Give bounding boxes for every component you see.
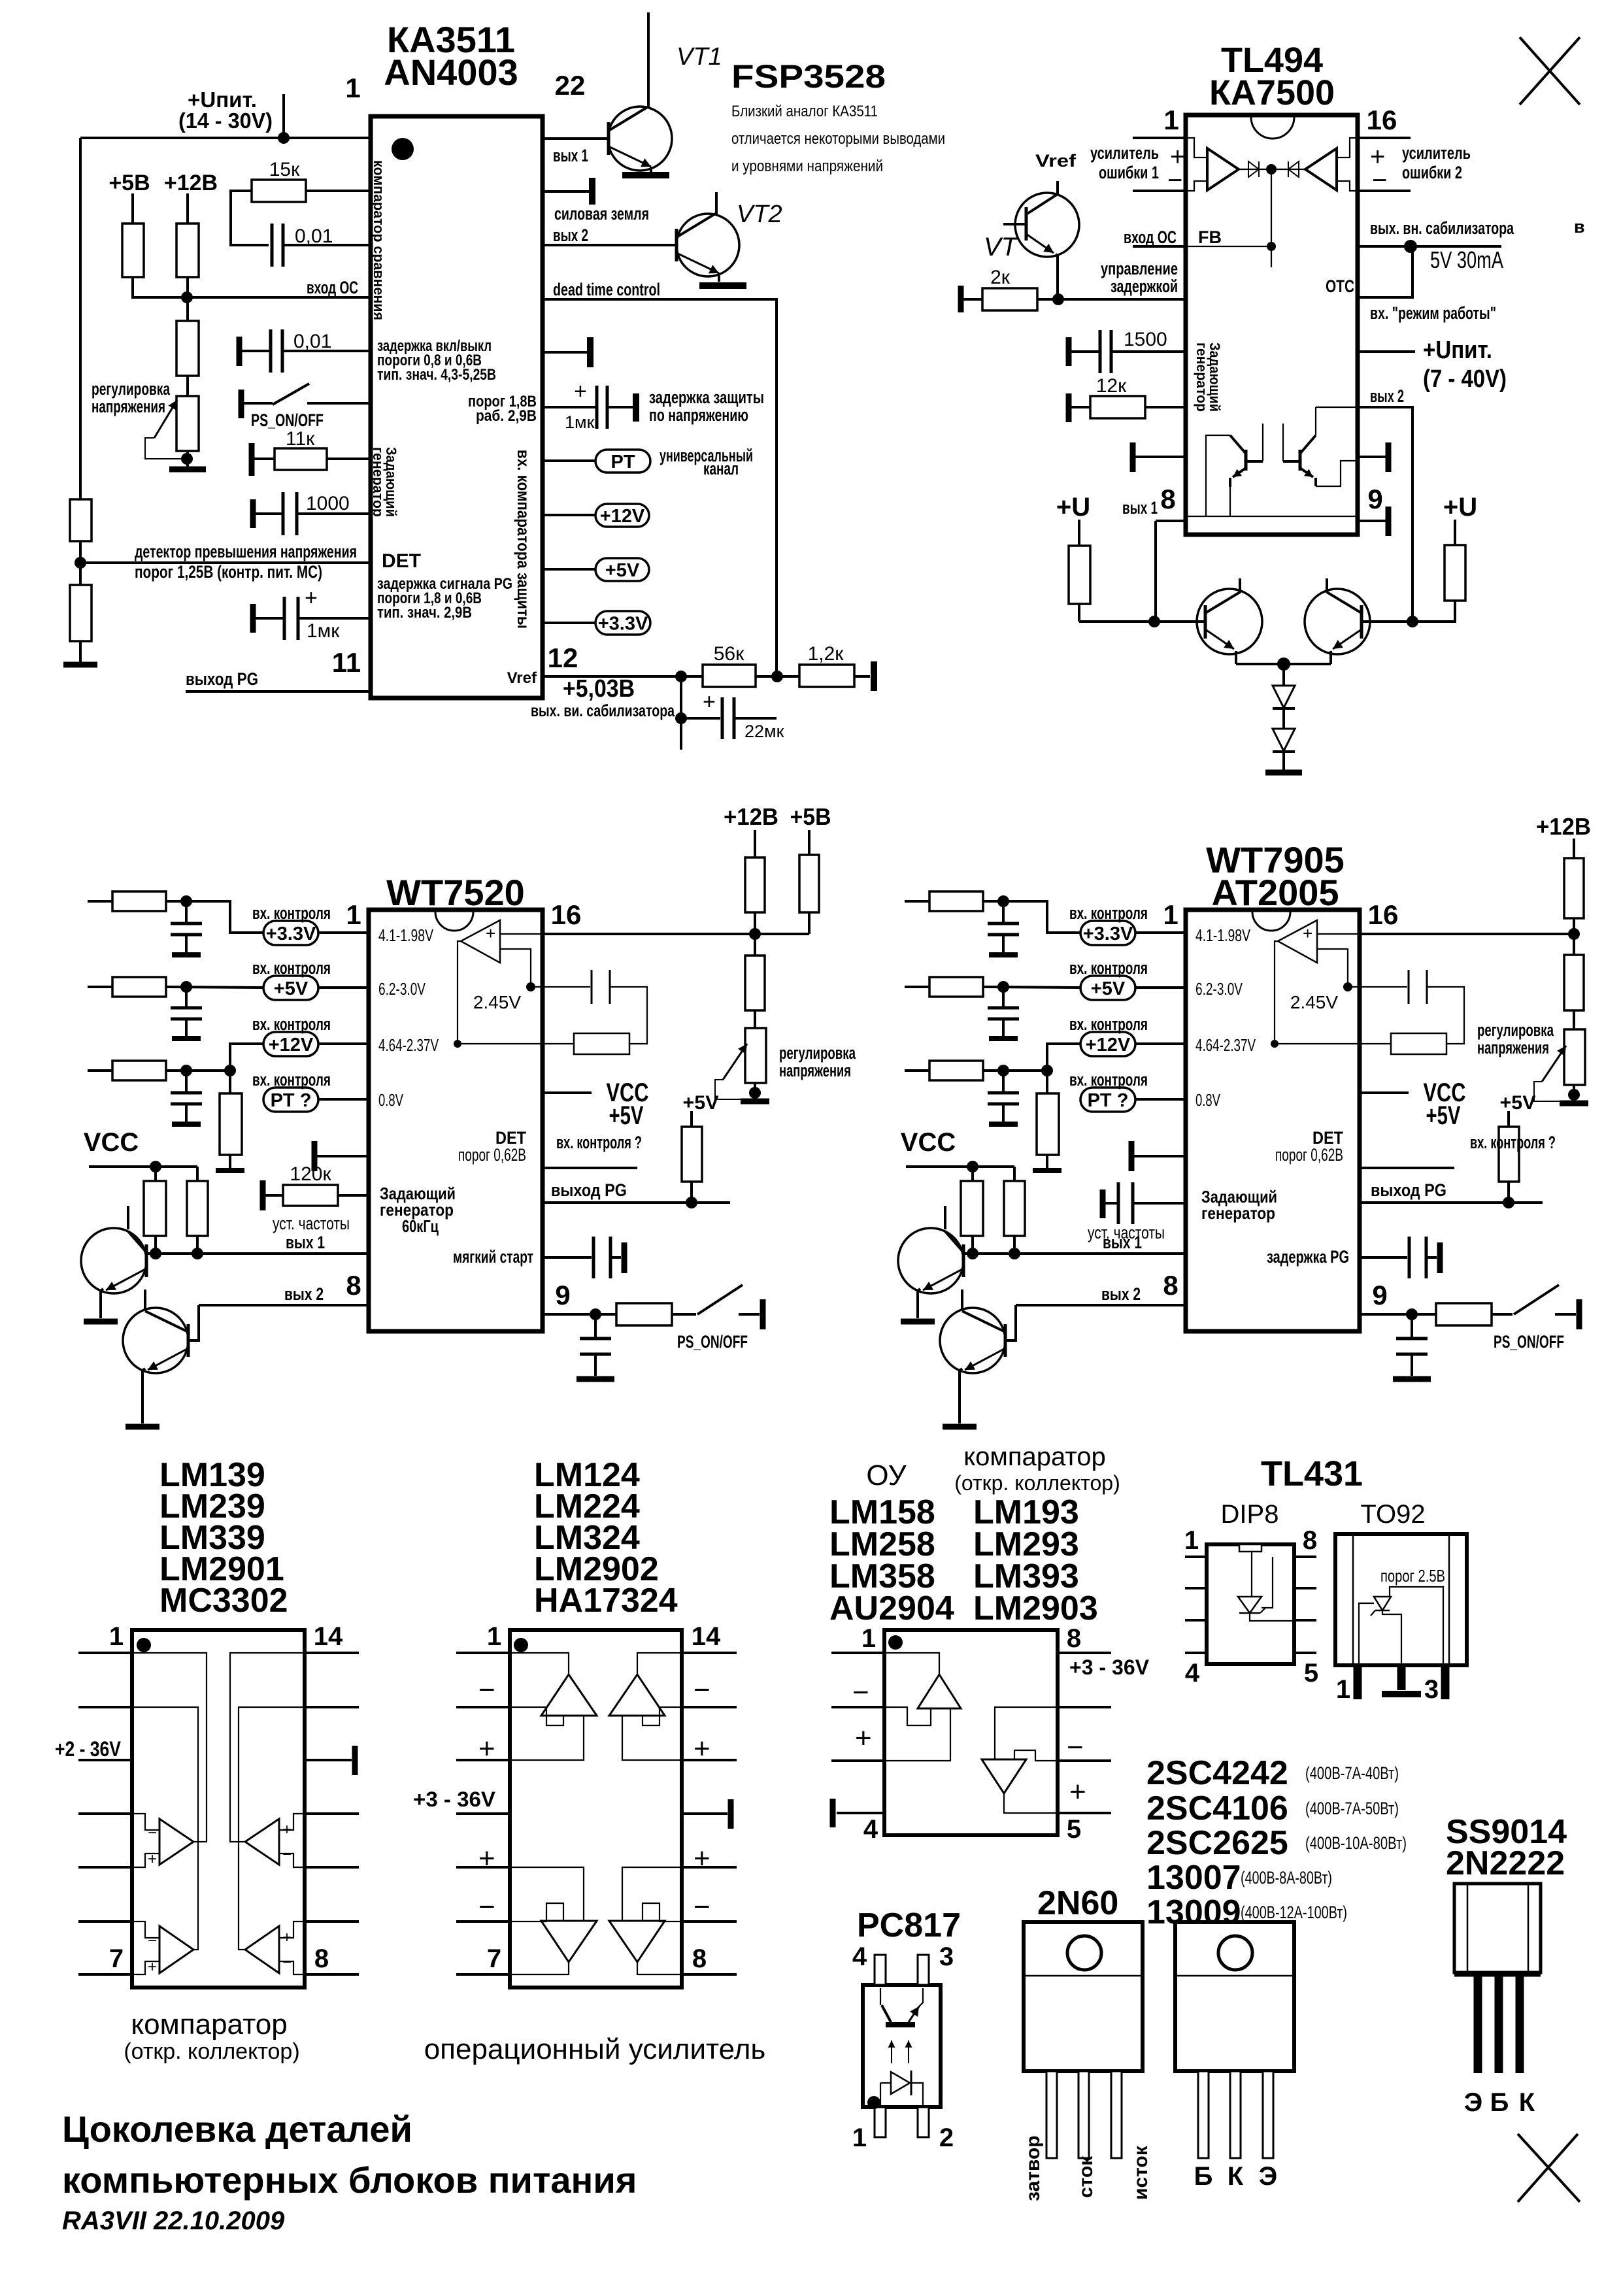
resistor input row1 U3 WT7520 (88, 900, 112, 903)
svg-text:+: + (694, 1842, 710, 1874)
svg-text:(откр. коллектор): (откр. коллектор) (954, 1471, 1120, 1495)
wire выход PG U3 (543, 1201, 730, 1204)
svg-text:+12V: +12V (600, 506, 645, 527)
svg-text:4: 4 (863, 1815, 878, 1844)
wire +U supply stub (282, 94, 285, 137)
svg-text:AU2904: AU2904 (829, 1589, 954, 1627)
capacitor мягкий старт U3 (543, 1256, 592, 1259)
svg-text:14: 14 (314, 1622, 343, 1651)
pin-1 dot DIP8 (888, 1635, 903, 1650)
svg-text:14: 14 (692, 1622, 721, 1651)
svg-text:затвор: затвор (1022, 2135, 1044, 2201)
svg-text:12: 12 (548, 642, 578, 673)
svg-text:13009: 13009 (1146, 1893, 1241, 1931)
wire Vref pin14 (1358, 245, 1501, 248)
node вход ОС junction (181, 291, 193, 303)
svg-text:VT2: VT2 (737, 201, 782, 228)
svg-text:22: 22 (555, 70, 586, 101)
wire вых 1 pin8 (1156, 520, 1186, 522)
oval +12V (543, 514, 595, 516)
svg-text:в: в (1574, 217, 1585, 237)
diode D4 (1282, 708, 1285, 729)
transistor Q1 U3 WT7520 (81, 1228, 146, 1293)
pin-1 index dot U1 (392, 138, 414, 160)
TO92 SS9014 body (1454, 1884, 1541, 1972)
svg-text:120к: 120к (290, 1163, 331, 1185)
ground силовая земля pin (543, 190, 590, 193)
oval +5V U4 WT7905 (1080, 976, 1135, 1000)
svg-text:2SC4106: 2SC4106 (1146, 1789, 1288, 1827)
pins right DIP8 (1058, 1652, 1111, 1654)
resistor 1,2к (799, 665, 854, 687)
svg-text:4: 4 (1185, 1659, 1200, 1688)
resistor +5V PG pullup U4 (1507, 1111, 1510, 1127)
svg-text:Цоколевка деталей: Цоколевка деталей (62, 2108, 412, 2150)
svg-text:4.1-1.98V: 4.1-1.98V (1195, 925, 1250, 945)
opamp B triangle (609, 1674, 665, 1716)
svg-text:+5V: +5V (274, 978, 309, 999)
svg-text:отличается некоторыми выводами: отличается некоторыми выводами (731, 130, 945, 148)
svg-text:−: − (1067, 1731, 1084, 1763)
capacitor 22мк (680, 676, 682, 750)
svg-text:1000: 1000 (306, 493, 350, 514)
svg-text:тип. знач. 4,3-5,25В: тип. знач. 4,3-5,25В (377, 366, 496, 384)
svg-text:16: 16 (551, 899, 582, 930)
wire вых 2 U3 WT7520 (199, 1304, 369, 1306)
IC DIP8 body (884, 1630, 1058, 1835)
svg-text:+5V: +5V (683, 1092, 719, 1114)
PC817 top pin 4 (875, 1955, 886, 1985)
wire pin9 PS circuit U4 (1360, 1313, 1436, 1316)
resistor 2к (958, 286, 964, 312)
tick pin9 (1358, 520, 1386, 522)
svg-text:11: 11 (332, 647, 361, 678)
svg-text:MC3302: MC3302 (159, 1582, 288, 1620)
svg-text:+12V: +12V (1086, 1035, 1131, 1056)
svg-text:Э: Э (1464, 2088, 1482, 2117)
diode D3 (1282, 664, 1285, 686)
resistor divider DET upper (70, 499, 92, 541)
resistor 15к (231, 191, 269, 245)
IC DIP14 comparator body (132, 1630, 305, 1988)
wire DET to U1 (80, 561, 371, 564)
oval PT ? U4 WT7905 (1080, 1088, 1135, 1112)
potentiometer регулировка U3 (745, 1028, 766, 1083)
IC U4 WT7905 block body (1186, 910, 1360, 1331)
wire pin1 +input (1133, 137, 1186, 139)
wire вых 1 U3 WT7520 (146, 1252, 369, 1255)
svg-text:AT2005: AT2005 (1211, 872, 1339, 913)
capacitor задержка PG U4 (1360, 1256, 1407, 1259)
index notch U3 WT7520 (435, 912, 473, 931)
optocoupler PC817 body (863, 1985, 941, 2107)
svg-text:dead time control: dead time control (553, 280, 660, 299)
svg-text:К: К (1519, 2088, 1535, 2117)
svg-text:+3 - 36V: +3 - 36V (413, 1788, 496, 1811)
svg-text:5: 5 (1067, 1815, 1081, 1844)
resistor +5В pullup U3 (808, 830, 811, 855)
ground diodes (1265, 770, 1302, 776)
capacitor 0,01 on/off delay (237, 337, 242, 366)
svg-text:+3.3V: +3.3V (1083, 923, 1133, 944)
svg-text:порог 2.5В: порог 2.5В (1380, 1566, 1445, 1586)
resistor VCC a U4 WT7905 (971, 1167, 974, 1181)
svg-text:5V 30mA: 5V 30mA (1430, 246, 1503, 273)
svg-text:−: − (852, 1676, 869, 1708)
svg-text:+3 - 36V: +3 - 36V (1069, 1655, 1150, 1679)
svg-text:4.64-2.37V: 4.64-2.37V (1195, 1035, 1256, 1055)
comparator D triangle (245, 1926, 279, 1973)
svg-text:15к: 15к (269, 159, 300, 180)
resistor +U left (1078, 520, 1080, 546)
svg-text:6.2-3.0V: 6.2-3.0V (1195, 979, 1243, 999)
capacitor row3 U4 WT7905 (1002, 1071, 1005, 1092)
svg-text:вых 2: вых 2 (1101, 1284, 1141, 1304)
transistor Q1 U4 WT7905 (898, 1228, 963, 1293)
svg-text:1: 1 (1184, 1526, 1199, 1555)
svg-text:8: 8 (314, 1944, 329, 1973)
svg-text:−: − (478, 1674, 495, 1706)
svg-text:вх. контроля: вх. контроля (1069, 1014, 1148, 1034)
PC817 bottom pin 2 (918, 2107, 929, 2137)
internal rail to pin8 (1186, 516, 1357, 517)
node DET junction (75, 557, 86, 569)
stub вх. контроля ? U4 (1360, 1167, 1454, 1169)
svg-text:1: 1 (487, 1622, 501, 1651)
svg-text:напряжения: напряжения (779, 1061, 851, 1080)
wire pin9 PS circuit U3 (543, 1313, 616, 1316)
diode D1 internal (1239, 169, 1305, 170)
IC U1 KA3511 block body (371, 116, 543, 698)
transistor Q2 U4 WT7905 (940, 1308, 1005, 1373)
PC817 top pin 3 (918, 1955, 929, 1985)
wire VCC rail U4 WT7905 (906, 1165, 1014, 1168)
oval +12V U3 WT7520 (263, 1032, 318, 1056)
svg-text:−: − (694, 1674, 710, 1706)
svg-text:−: − (282, 1954, 292, 1971)
IC TL431 TO92 body (1335, 1534, 1467, 1665)
pins left DIP8 (831, 1652, 884, 1654)
svg-text:порог 0,62В: порог 0,62В (1275, 1145, 1343, 1165)
svg-text:2SC2625: 2SC2625 (1146, 1824, 1288, 1862)
svg-text:вых 1: вых 1 (553, 146, 588, 165)
svg-text:1: 1 (345, 73, 360, 103)
svg-text:1: 1 (861, 1624, 876, 1653)
svg-text:AN4003: AN4003 (384, 52, 518, 93)
svg-text:(400В-10А-80Вт): (400В-10А-80Вт) (1305, 1833, 1407, 1853)
svg-text:9: 9 (1367, 484, 1382, 514)
resistor +12 upper U4 (1564, 858, 1584, 918)
wire вых 2 pin (1358, 407, 1412, 622)
svg-text:Б: Б (1490, 2088, 1509, 2117)
svg-text:13007: 13007 (1146, 1859, 1241, 1897)
wire OTC pin (1358, 246, 1412, 297)
svg-text:8: 8 (346, 1270, 361, 1301)
wire pin16 U4 (1358, 933, 1574, 935)
transistor VT3 left driver (1197, 589, 1262, 654)
svg-text:регулировка: регулировка (92, 379, 171, 399)
svg-text:+5V: +5V (1500, 1092, 1536, 1114)
resistor +12В divider (186, 193, 189, 224)
svg-text:2.45V: 2.45V (1290, 992, 1338, 1012)
resistor 56к (703, 665, 756, 687)
svg-text:вх. контроля: вх. контроля (1069, 958, 1148, 978)
svg-text:−: − (478, 1891, 495, 1923)
ground stub right U2 (1358, 456, 1386, 458)
transistor Q2 U3 WT7520 (123, 1308, 188, 1373)
svg-text:выход PG: выход PG (551, 1180, 627, 1200)
svg-text:тип. знач. 2,9В: тип. знач. 2,9В (377, 604, 472, 622)
resistor input row3 U3 WT7520 (88, 1069, 112, 1072)
svg-text:вх. контроля: вх. контроля (252, 958, 331, 978)
wire +12 rail U4 (1573, 839, 1575, 858)
svg-text:1: 1 (1163, 899, 1178, 930)
svg-text:1: 1 (1336, 1675, 1350, 1704)
resistor PS_ON/OFF U3 (616, 1303, 672, 1325)
svg-text:+U: +U (1443, 493, 1477, 522)
wire вых 2 to VT2 (543, 244, 677, 246)
svg-text:(14 - 30V): (14 - 30V) (178, 108, 273, 133)
svg-text:4: 4 (852, 1942, 867, 1971)
X mark top right (1520, 37, 1580, 105)
svg-text:PS_ON/OFF: PS_ON/OFF (1494, 1332, 1564, 1352)
svg-text:11к: 11к (286, 428, 315, 450)
svg-text:2: 2 (939, 2123, 954, 2152)
svg-text:WT7520: WT7520 (386, 872, 525, 913)
comparator 2.45V U4 WT7905 (1278, 920, 1317, 963)
svg-text:вых 1: вых 1 (1122, 498, 1158, 518)
svg-text:12к: 12к (1096, 375, 1127, 397)
svg-text:60кГц: 60кГц (402, 1216, 439, 1236)
feedback resistor U3 WT7520 (574, 1033, 629, 1054)
wire вых 2 U4 WT7905 (1016, 1304, 1186, 1306)
capacitor row2 U3 WT7520 (185, 987, 188, 1007)
svg-text:+12V: +12V (269, 1035, 314, 1056)
IC U3 WT7520 block body (369, 910, 543, 1331)
capacitor row1 U3 WT7520 (185, 901, 188, 923)
svg-text:задержкой: задержкой (1111, 276, 1178, 296)
svg-text:+: + (574, 379, 587, 404)
svg-text:уст. частоты: уст. частоты (1088, 1223, 1165, 1242)
svg-text:FSP3528: FSP3528 (731, 58, 886, 95)
svg-text:0.8V: 0.8V (378, 1090, 403, 1110)
oval +5V (543, 568, 595, 571)
svg-text:регулировка: регулировка (1477, 1020, 1554, 1040)
svg-text:силовая земля: силовая земля (554, 204, 649, 224)
wire pin16 row U3 WT7520 (541, 933, 544, 935)
opamp D triangle (609, 1921, 665, 1962)
wire вход ОС to U1 (187, 296, 371, 299)
capacitor 1500 osc (1066, 337, 1072, 366)
output transistor Q2 internal (1316, 407, 1357, 408)
comparator C triangle (159, 1926, 193, 1973)
resistor input row1 U4 WT7905 (905, 900, 929, 903)
junction +U rail (278, 132, 290, 144)
zener symbol TL431 TO92 (1374, 1597, 1391, 1610)
svg-text:+5В: +5В (109, 171, 150, 195)
svg-text:7: 7 (109, 1944, 124, 1973)
svg-text:PS_ON/OFF: PS_ON/OFF (251, 410, 324, 430)
svg-text:вх. контроля ?: вх. контроля ? (1470, 1133, 1556, 1152)
oval +5V U3 WT7520 (263, 976, 318, 1000)
switch PS_ON/OFF (239, 390, 244, 418)
resistor input row2 U4 WT7905 (905, 986, 929, 988)
PC817 bottom pin 1 (875, 2107, 886, 2137)
svg-text:LM2903: LM2903 (973, 1589, 1098, 1627)
svg-text:5: 5 (1304, 1659, 1318, 1688)
svg-text:вых 1: вых 1 (286, 1233, 325, 1252)
svg-text:ошибки 1: ошибки 1 (1099, 163, 1159, 182)
svg-text:уст. частоты: уст. частоты (273, 1214, 350, 1233)
resistor input row2 U3 WT7520 (88, 986, 112, 988)
svg-text:8: 8 (692, 1944, 707, 1973)
svg-text:+12В: +12В (1536, 813, 1591, 840)
svg-text:+5V: +5V (1426, 1101, 1461, 1130)
resistor VCC b U4 WT7905 (1013, 1167, 1016, 1181)
comparator 2.45V U3 WT7520 (461, 920, 500, 963)
svg-text:1: 1 (109, 1622, 124, 1651)
ground tick pin11 right opamp (728, 1799, 734, 1829)
svg-text:(400В-12А-100Вт): (400В-12А-100Вт) (1241, 1903, 1347, 1922)
svg-text:порог 1,25В (контр. пит. МС): порог 1,25В (контр. пит. МС) (135, 562, 322, 582)
svg-text:(400В-8А-80Вт): (400В-8А-80Вт) (1241, 1868, 1332, 1888)
svg-text:RA3VII 22.10.2009: RA3VII 22.10.2009 (62, 2206, 285, 2235)
X mark bottom right (1518, 2134, 1580, 2202)
svg-text:PT ?: PT ? (1088, 1090, 1129, 1111)
svg-text:компаратор: компаратор (131, 2008, 287, 2040)
svg-text:Задающий: Задающий (383, 447, 399, 517)
svg-text:напряжения: напряжения (92, 397, 165, 416)
pins right DIP14 comparator (305, 1652, 359, 1654)
notch TL431 DIP8 (1239, 1544, 1262, 1552)
svg-text:КА7500: КА7500 (1209, 73, 1335, 112)
svg-text:56к: 56к (714, 643, 744, 665)
pot wiper arrow (154, 400, 177, 438)
wire вых 1 U4 WT7905 (963, 1252, 1186, 1255)
svg-text:16: 16 (1367, 105, 1397, 135)
svg-text:вх. контроля: вх. контроля (252, 1070, 331, 1090)
diode D2 internal (1288, 161, 1299, 177)
index notch U4 WT7905 (1252, 912, 1290, 931)
svg-text:VT1: VT1 (677, 43, 722, 71)
wire pin2 -input (1133, 190, 1186, 192)
feedback capacitor U3 WT7520 (531, 986, 590, 988)
label VCC +5V U4 (1360, 1091, 1409, 1094)
wire left rail down (79, 138, 82, 499)
svg-text:8: 8 (1163, 1270, 1178, 1301)
wire pin1 rail (80, 137, 371, 139)
svg-text:исток: исток (1130, 2145, 1152, 2200)
svg-text:(7 - 40V): (7 - 40V) (1423, 365, 1507, 393)
index notch U2 (1251, 117, 1294, 139)
svg-text:+3.3V: +3.3V (598, 613, 648, 634)
svg-text:1: 1 (852, 2123, 867, 2152)
svg-text:выход PG: выход PG (186, 669, 258, 689)
svg-text:16: 16 (1368, 899, 1399, 930)
switch PS_ON/OFF U4 (1514, 1285, 1559, 1314)
svg-text:+12В: +12В (164, 171, 218, 195)
resistor reg divider upper U3 (754, 934, 756, 956)
svg-text:детектор превышения напряжения: детектор превышения напряжения (135, 542, 357, 561)
TO220 13007/13009 body (1175, 1922, 1294, 2071)
svg-text:PT ?: PT ? (271, 1090, 312, 1111)
svg-text:+Uпит.: +Uпит. (1423, 337, 1492, 364)
wire pin16 row U4 WT7905 (1358, 933, 1361, 935)
pin-1 dot DIP14 opamp (514, 1638, 528, 1652)
resistor input row3 U4 WT7905 (905, 1069, 929, 1072)
comparator B triangle (245, 1819, 279, 1865)
svg-text:Э: Э (1259, 2162, 1277, 2191)
svg-text:вход ОС: вход ОС (1124, 227, 1177, 247)
wire pin16 U3 (543, 933, 809, 935)
oval +3.3V U3 WT7520 (263, 921, 318, 945)
resistor pulldown row3 U4 WT7905 (1046, 1071, 1048, 1093)
pin-1 dot DIP14 comparator (137, 1638, 151, 1652)
svg-text:3: 3 (1424, 1675, 1439, 1704)
zener symbol TL431 DIP8 (1238, 1597, 1262, 1613)
svg-text:выход PG: выход PG (1371, 1180, 1446, 1200)
svg-text:−: − (148, 1824, 157, 1842)
pins TL431 DIP8 (1185, 1556, 1207, 1558)
capacitor 1мк PG delay (250, 604, 256, 633)
DIP8 opamp B triangle (982, 1759, 1026, 1793)
svg-text:DIP8: DIP8 (1221, 1500, 1279, 1529)
svg-text:VT: VT (984, 233, 1019, 261)
svg-text:вх. контроля: вх. контроля (1069, 1070, 1148, 1090)
PC817 led arrows (891, 2040, 892, 2063)
resistor divider DET lower (79, 541, 82, 585)
PC817 led diode (891, 2072, 910, 2094)
svg-text:и уровнями напряжений: и уровнями напряжений (731, 158, 883, 175)
svg-text:вх. контроля: вх. контроля (252, 903, 331, 923)
svg-text:усилитель: усилитель (1402, 143, 1471, 163)
svg-text:раб. 2,9В: раб. 2,9В (476, 407, 537, 425)
svg-text:ОТС: ОТС (1326, 276, 1354, 296)
ground VT1 (622, 172, 669, 178)
svg-text:вх. компаратора защиты: вх. компаратора защиты (514, 450, 533, 629)
wire выход PG pin11 (186, 690, 371, 693)
svg-text:+5В: +5В (790, 803, 831, 830)
ground stub left U2 (1135, 456, 1186, 458)
ground stub pin5 U3 WT7520 (312, 1141, 318, 1171)
svg-text:22мк: 22мк (744, 722, 784, 741)
svg-text:+: + (1069, 1776, 1086, 1808)
svg-text:+: + (305, 586, 318, 610)
svg-text:+: + (478, 1733, 495, 1765)
transistor VT1 (608, 107, 672, 171)
feedback resistor U4 WT7905 (1391, 1033, 1446, 1054)
svg-text:+: + (282, 1929, 292, 1946)
svg-text:вых 2: вых 2 (1370, 386, 1404, 406)
svg-text:2SC4242: 2SC4242 (1146, 1754, 1288, 1792)
wire +Uпит pin12 (1358, 350, 1415, 353)
svg-text:+5V: +5V (609, 1101, 644, 1130)
resistor pulldown row3 U3 WT7520 (229, 1071, 231, 1093)
comparator A triangle (159, 1819, 193, 1865)
capacitor 1мк protection delay (543, 406, 595, 408)
legs TL431 TO92 (1354, 1665, 1362, 1699)
label VCC +5V U3 (543, 1091, 592, 1094)
oval +3.3V (543, 622, 595, 624)
wire driver base rail left (1079, 620, 1205, 623)
svg-text:Б: Б (1194, 2162, 1213, 2191)
svg-text:вых. ви. сабилизатора: вых. ви. сабилизатора (531, 701, 675, 720)
svg-text:0,01: 0,01 (295, 225, 333, 247)
svg-text:2N60: 2N60 (1037, 1884, 1118, 1922)
transistor VT external (1015, 193, 1079, 257)
svg-text:мягкий старт: мягкий старт (453, 1247, 533, 1267)
IC TL431 DIP8 body (1207, 1544, 1294, 1664)
